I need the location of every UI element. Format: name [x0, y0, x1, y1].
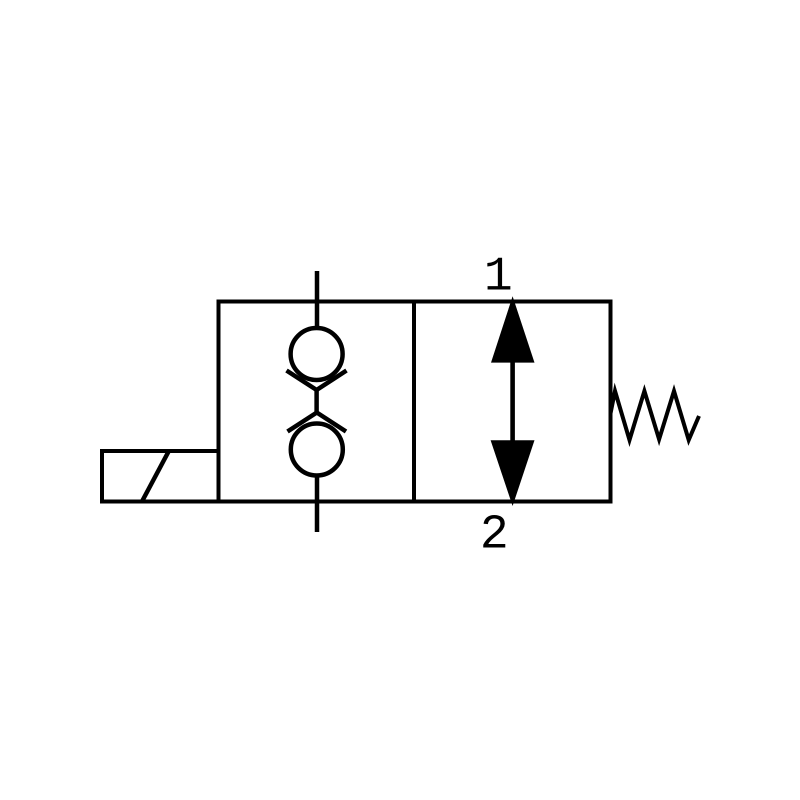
check valve seat bottom (inverted V): [288, 413, 347, 432]
valve body outline (two-position envelope): [219, 302, 611, 502]
svg-text:1: 1: [484, 250, 513, 304]
solenoid diagonal stroke: [143, 452, 169, 501]
solenoid actuator box: [102, 451, 219, 502]
position divider line: [412, 302, 416, 502]
check valve ball top (circle): [291, 328, 343, 380]
port line bottom stub: [315, 475, 320, 532]
flow arrow bottom head: [491, 440, 535, 506]
return spring zigzag: [611, 391, 700, 440]
flow arrow shaft: [510, 360, 515, 443]
port line top stub: [315, 271, 320, 328]
flow arrow top head: [491, 296, 535, 362]
connector between seats: [314, 390, 319, 413]
svg-text:2: 2: [480, 509, 509, 563]
check valve ball bottom (circle): [291, 424, 343, 476]
check valve seat top (V): [287, 371, 347, 391]
